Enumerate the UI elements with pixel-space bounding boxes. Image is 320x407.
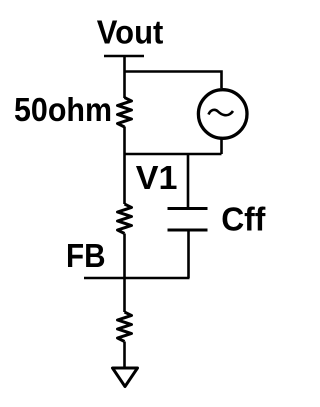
wire R3 bottom to ground	[123, 342, 126, 369]
wire AC source bottom lead	[220, 138, 223, 154]
wire R1 bottom to node V1	[123, 127, 126, 205]
svg-text:V1: V1	[136, 159, 178, 196]
resistor R2 zigzag	[118, 204, 132, 234]
wire top branch to AC source	[125, 72, 222, 89]
wire capacitor Cff top lead	[187, 154, 190, 209]
svg-text:Cff: Cff	[221, 201, 266, 238]
svg-text:Vout: Vout	[97, 13, 164, 50]
wire R2 bottom to FB node	[123, 234, 126, 313]
capacitor Cff top plate	[168, 207, 208, 210]
wire node V1 horizontal	[125, 153, 222, 156]
wire FB node horizontal	[84, 277, 190, 280]
ground symbol	[113, 368, 138, 387]
svg-text:FB: FB	[66, 237, 106, 274]
AC source V1 circle	[198, 90, 247, 139]
svg-text:50ohm: 50ohm	[14, 91, 112, 128]
resistor R3 zigzag	[118, 312, 132, 342]
wire capacitor Cff bottom lead	[187, 230, 190, 278]
resistor R1 (50ohm) zigzag	[118, 98, 132, 128]
wire Vout down to resistor R1 top	[123, 56, 126, 98]
AC source sine tilde	[209, 110, 234, 115]
node Vout terminal bar	[104, 55, 144, 58]
capacitor Cff bottom plate	[168, 229, 208, 232]
